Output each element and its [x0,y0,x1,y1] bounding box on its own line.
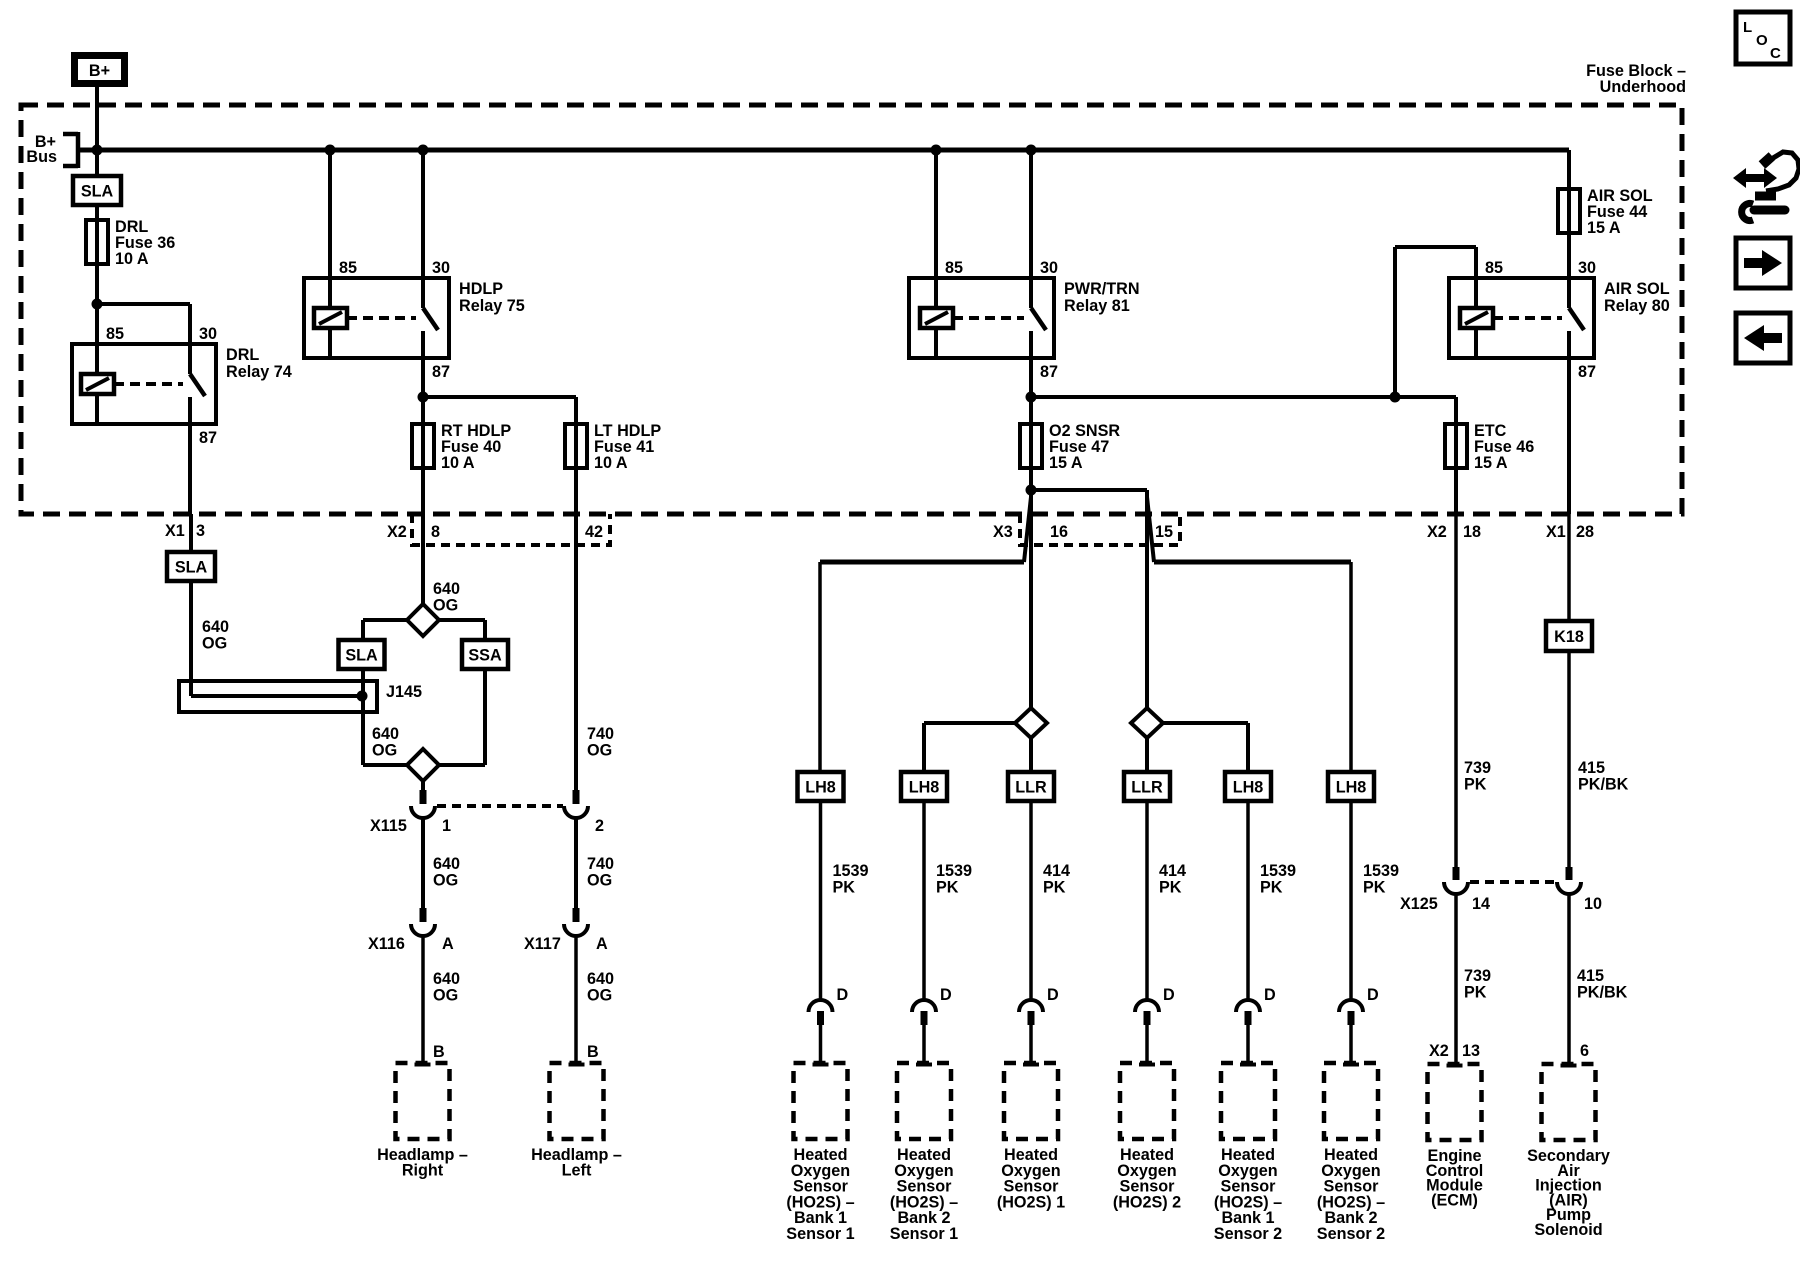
svg-text:10: 10 [1584,895,1602,913]
svg-text:415: 415 [1577,967,1604,985]
svg-text:740: 740 [587,725,614,743]
svg-text:SSA: SSA [468,647,502,665]
svg-text:14: 14 [1472,895,1490,913]
svg-text:X2: X2 [1427,523,1447,541]
svg-text:30: 30 [432,259,450,277]
svg-text:85: 85 [339,259,357,277]
svg-text:1539: 1539 [1260,862,1296,880]
svg-text:LH8: LH8 [1233,779,1264,797]
svg-text:(HO2S) 2: (HO2S) 2 [1113,1193,1181,1211]
svg-text:414: 414 [1043,862,1070,880]
svg-text:OG: OG [433,597,458,615]
svg-text:Left: Left [562,1162,592,1180]
svg-text:X1: X1 [1546,523,1566,541]
svg-text:DRL: DRL [226,346,259,364]
svg-text:Solenoid: Solenoid [1534,1221,1602,1239]
svg-text:D: D [837,986,849,1004]
svg-text:A: A [596,935,608,953]
svg-text:OG: OG [433,987,458,1005]
svg-text:B: B [587,1043,599,1061]
svg-text:OG: OG [202,635,227,653]
svg-text:D: D [1367,986,1379,1004]
svg-text:16: 16 [1050,523,1068,541]
svg-text:OG: OG [587,742,612,760]
svg-text:PK/BK: PK/BK [1577,984,1628,1002]
svg-text:15 A: 15 A [1474,454,1508,472]
svg-text:640: 640 [433,580,460,598]
svg-text:PK: PK [1043,879,1066,897]
svg-text:SLA: SLA [345,647,378,665]
svg-text:13: 13 [1462,1042,1480,1060]
svg-text:J145: J145 [386,683,422,701]
svg-text:739: 739 [1464,967,1491,985]
svg-text:640: 640 [433,970,460,988]
svg-text:LLR: LLR [1131,779,1163,797]
svg-text:87: 87 [432,363,450,381]
svg-text:(HO2S) 1: (HO2S) 1 [997,1193,1065,1211]
svg-text:10 A: 10 A [594,454,628,472]
svg-text:X115: X115 [370,817,407,835]
svg-text:Sensor 2: Sensor 2 [1317,1225,1385,1243]
svg-text:LH8: LH8 [1336,779,1367,797]
svg-text:O: O [1756,32,1768,49]
svg-text:1539: 1539 [1363,862,1399,880]
svg-text:Relay 75: Relay 75 [459,297,525,315]
svg-text:X3: X3 [993,523,1013,541]
svg-text:OG: OG [587,987,612,1005]
svg-text:B+: B+ [89,62,110,80]
svg-text:K18: K18 [1554,628,1584,646]
svg-text:15 A: 15 A [1587,219,1621,237]
svg-text:L: L [1743,19,1752,36]
svg-text:1539: 1539 [936,862,972,880]
svg-text:C: C [1770,45,1781,62]
svg-text:X116: X116 [368,935,405,953]
svg-text:28: 28 [1576,523,1594,541]
svg-text:B: B [433,1043,445,1061]
svg-text:X117: X117 [524,935,561,953]
svg-text:(ECM): (ECM) [1431,1191,1478,1209]
svg-text:HDLP: HDLP [459,280,503,298]
svg-text:30: 30 [1578,259,1596,277]
svg-text:PK: PK [1159,879,1182,897]
svg-text:AIR SOL: AIR SOL [1604,280,1670,298]
svg-text:A: A [442,935,454,953]
svg-text:OG: OG [587,872,612,890]
svg-text:PK: PK [1464,984,1487,1002]
svg-text:6: 6 [1580,1042,1589,1060]
svg-text:X2: X2 [1429,1042,1449,1060]
svg-text:640: 640 [372,725,399,743]
svg-text:10 A: 10 A [115,250,149,268]
svg-text:15 A: 15 A [1049,454,1083,472]
svg-text:87: 87 [1578,363,1596,381]
svg-text:Relay 81: Relay 81 [1064,297,1130,315]
svg-text:42: 42 [585,523,603,541]
svg-text:739: 739 [1464,759,1491,777]
svg-text:Sensor 2: Sensor 2 [1214,1225,1282,1243]
svg-text:X2: X2 [387,523,407,541]
svg-text:D: D [1163,986,1175,1004]
svg-text:414: 414 [1159,862,1186,880]
svg-text:415: 415 [1578,759,1605,777]
svg-text:640: 640 [587,970,614,988]
svg-text:85: 85 [106,325,124,343]
svg-text:PWR/TRN: PWR/TRN [1064,280,1140,298]
svg-text:Relay 80: Relay 80 [1604,297,1670,315]
svg-text:10 A: 10 A [441,454,475,472]
svg-text:PK/BK: PK/BK [1578,776,1629,794]
svg-text:30: 30 [199,325,217,343]
svg-text:PK: PK [1260,879,1283,897]
svg-text:X125: X125 [1400,895,1438,913]
svg-text:PK: PK [936,879,959,897]
svg-text:D: D [940,986,952,1004]
svg-text:Sensor 1: Sensor 1 [890,1225,958,1243]
svg-text:2: 2 [595,817,604,835]
svg-text:30: 30 [1040,259,1058,277]
svg-text:85: 85 [945,259,963,277]
svg-text:1539: 1539 [833,862,869,880]
svg-text:PK: PK [833,879,856,897]
svg-text:Sensor 1: Sensor 1 [786,1225,854,1243]
svg-text:740: 740 [587,855,614,873]
svg-text:X1: X1 [165,522,185,540]
svg-text:Relay 74: Relay 74 [226,363,292,381]
svg-text:8: 8 [431,523,440,541]
svg-text:Bus: Bus [26,148,57,166]
svg-text:SLA: SLA [175,559,208,577]
svg-text:Right: Right [402,1162,444,1180]
svg-text:15: 15 [1155,523,1173,541]
svg-text:640: 640 [202,618,229,636]
svg-text:Underhood: Underhood [1600,78,1686,96]
svg-text:87: 87 [1040,363,1058,381]
svg-text:1: 1 [442,817,451,835]
svg-text:87: 87 [199,429,217,447]
svg-text:D: D [1264,986,1276,1004]
svg-text:LH8: LH8 [805,779,836,797]
svg-text:LH8: LH8 [909,779,940,797]
svg-text:OG: OG [372,742,397,760]
svg-text:PK: PK [1363,879,1386,897]
svg-text:640: 640 [433,855,460,873]
svg-text:85: 85 [1485,259,1503,277]
svg-text:SLA: SLA [81,183,114,201]
svg-text:LLR: LLR [1015,779,1047,797]
svg-text:18: 18 [1463,523,1481,541]
svg-text:D: D [1047,986,1059,1004]
svg-text:OG: OG [433,872,458,890]
svg-text:PK: PK [1464,776,1487,794]
svg-text:3: 3 [196,522,205,540]
